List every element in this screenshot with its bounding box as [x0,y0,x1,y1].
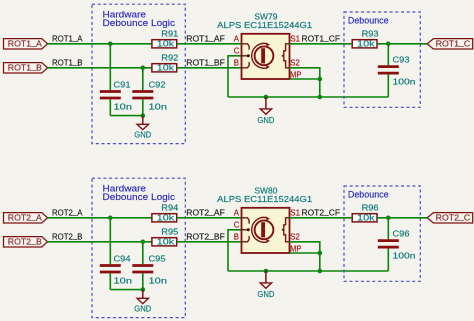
svg-text:ROT2_B: ROT2_B [8,235,42,247]
wire ROT2_AF [177,217,242,219]
wire cap link [110,115,143,117]
svg-text:10n: 10n [149,102,168,112]
svg-text:10k: 10k [157,38,176,48]
rotary encoder SW79 [217,11,312,79]
wire ROT2_A [48,217,153,219]
svg-text:10k: 10k [157,212,176,222]
svg-text:C92: C92 [149,79,166,89]
resistor R96 10k [352,203,379,223]
svg-text:GND: GND [134,130,151,140]
svg-text:Debounce Logic: Debounce Logic [103,192,176,202]
junction B / C tap [141,66,146,71]
capacitor C95 10n [132,242,167,290]
ground (switch) [257,271,274,299]
junction cap gnd [141,113,146,118]
svg-text:A: A [234,35,240,44]
svg-text:R96: R96 [362,203,379,213]
svg-text:10k: 10k [157,62,176,72]
net label ROT2_A [52,206,83,218]
wire bottom rail [228,270,388,272]
input label ROT1_B [4,61,48,73]
capacitor C96 100n [378,218,416,271]
svg-text:Debounce Logic: Debounce Logic [103,18,176,28]
capacitor C94 10n [100,218,133,290]
svg-text:ALPS EC11E15244G1: ALPS EC11E15244G1 [217,20,312,30]
input label ROT1_A [4,37,48,49]
svg-text:B: B [234,233,239,242]
svg-text:ROT2_BF: ROT2_BF [186,230,225,242]
svg-text:R94: R94 [161,203,178,213]
junction A / C tap [108,216,113,221]
net label ROT2_AF [186,206,225,218]
svg-text:ROT1_A: ROT1_A [8,37,42,49]
wire MP to rail [319,253,321,271]
net label ROT2_BF [186,230,225,242]
dashed box Debounce [344,12,420,107]
net label ROT1_AF [186,32,225,44]
junction output cap [386,42,391,47]
svg-text:10k: 10k [357,38,376,48]
wire pin C to rail [228,230,242,271]
svg-text:R93: R93 [362,29,379,39]
svg-text:B: B [234,59,239,68]
wire ROT2_BF [177,241,242,243]
svg-text:10n: 10n [149,276,168,286]
wire ROT2_B [48,241,153,243]
output label ROT1_C [427,37,473,49]
note Debounce [348,16,389,26]
svg-text:ROT1_B: ROT1_B [52,56,83,68]
svg-text:ROT1_C: ROT1_C [436,37,471,49]
svg-text:C: C [234,47,240,56]
wire S2 down [290,68,320,79]
svg-text:GND: GND [134,304,151,314]
svg-text:ROT1_B: ROT1_B [8,61,42,73]
svg-text:ROT1_AF: ROT1_AF [186,32,225,44]
svg-text:C: C [234,221,240,230]
svg-text:100n: 100n [393,77,416,87]
svg-text:C93: C93 [393,54,410,64]
wire MP [290,252,320,254]
wire S1 ROT1_CF [290,43,352,45]
junction MP [318,77,323,82]
wire cap link [110,289,143,291]
resistor R92 10k [152,53,179,73]
wire S1 ROT2_CF [290,217,352,219]
wire pin C to rail [228,56,242,97]
svg-text:C95: C95 [149,253,166,263]
svg-text:GND: GND [257,289,274,299]
dashed box Debounce [344,186,420,281]
svg-text:ROT1_CF: ROT1_CF [302,32,341,44]
svg-text:ROT2_AF: ROT2_AF [186,206,225,218]
svg-text:Debounce: Debounce [348,190,389,200]
svg-text:S1: S1 [290,209,300,218]
ground (caps) [134,116,151,140]
junction cap gnd [141,287,146,292]
junction rail gnd [264,269,269,274]
wire MP [290,78,320,80]
net label ROT1_A [52,32,83,44]
svg-text:ROT2_A: ROT2_A [8,211,42,223]
svg-text:10n: 10n [114,102,133,112]
wire to output [377,217,427,219]
junction rail gnd [264,95,269,100]
junction rail [318,269,323,274]
svg-text:ALPS EC11E15244G1: ALPS EC11E15244G1 [217,194,312,204]
net label ROT1_B [52,56,83,68]
svg-text:ROT2_A: ROT2_A [52,206,83,218]
svg-text:100n: 100n [393,251,416,261]
svg-text:C91: C91 [114,79,131,89]
svg-text:S2: S2 [290,59,300,68]
svg-text:R91: R91 [161,29,178,39]
note Hardware Debounce Logic [103,184,176,202]
wire ROT1_BF [177,67,242,69]
capacitor C93 100n [378,44,416,97]
dashed box Hardware Debounce Logic [92,178,185,317]
note Hardware Debounce Logic [103,10,176,28]
svg-text:S2: S2 [290,233,300,242]
resistor R94 10k [152,203,179,223]
junction B / C tap [141,240,146,245]
svg-text:10k: 10k [357,212,376,222]
svg-text:Debounce: Debounce [348,16,389,26]
svg-text:ROT2_C: ROT2_C [436,211,471,223]
svg-text:A: A [234,209,240,218]
resistor R93 10k [352,29,379,49]
resistor R95 10k [152,227,179,247]
junction output cap [386,216,391,221]
ground (switch) [257,97,274,125]
wire ROT1_A [48,43,153,45]
svg-text:C94: C94 [114,253,131,263]
svg-text:10n: 10n [114,276,133,286]
wire ROT1_B [48,67,153,69]
net label ROT2_CF [302,206,341,218]
wire ROT1_AF [177,43,242,45]
net label ROT1_CF [302,32,341,44]
svg-text:R92: R92 [161,53,178,63]
svg-text:ROT2_B: ROT2_B [52,230,83,242]
svg-text:GND: GND [257,115,274,125]
dashed box Hardware Debounce Logic [92,4,185,143]
ground (caps) [134,290,151,314]
svg-text:ROT1_A: ROT1_A [52,32,83,44]
wire S2 down [290,242,320,253]
junction rail [318,95,323,100]
net label ROT1_BF [186,56,225,68]
junction A / C tap [108,42,113,47]
input label ROT2_A [4,211,48,223]
note Debounce [348,190,389,200]
capacitor C91 10n [100,44,133,116]
capacitor C92 10n [132,68,167,116]
wire MP to rail [319,79,321,97]
svg-text:C96: C96 [393,228,410,238]
rotary encoder SW80 [217,185,312,253]
wire to output [377,43,427,45]
wire bottom rail [228,96,388,98]
net label ROT2_B [52,230,83,242]
resistor R91 10k [152,29,179,49]
input label ROT2_B [4,235,48,247]
svg-text:R95: R95 [161,227,178,237]
svg-text:S1: S1 [290,35,300,44]
output label ROT2_C [427,211,473,223]
svg-text:10k: 10k [157,236,176,246]
junction MP [318,251,323,256]
svg-text:ROT2_CF: ROT2_CF [302,206,341,218]
svg-text:ROT1_BF: ROT1_BF [186,56,225,68]
